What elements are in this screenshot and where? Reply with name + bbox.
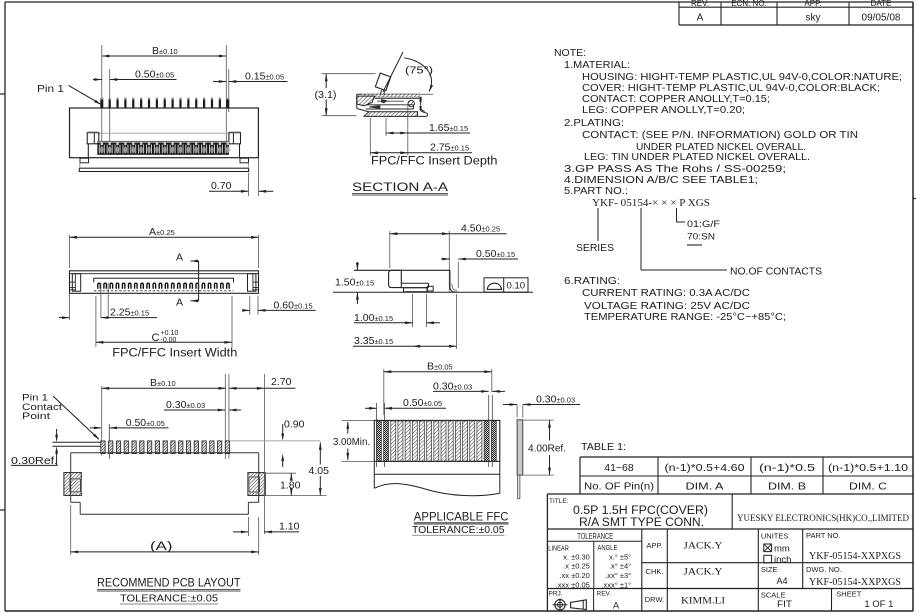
svg-text:0.10: 0.10	[507, 281, 526, 292]
top view: dim 0.60±0.15	[249, 296, 251, 315]
svg-text:(n-1)*0.5+4.60: (n-1)*0.5+4.60	[665, 462, 745, 474]
front view: body outline	[70, 108, 259, 158]
svg-text:(n-1)*0.5+1.10: (n-1)*0.5+1.10	[828, 462, 908, 474]
svg-text:PRJ.: PRJ.	[549, 591, 563, 598]
svg-text:1.00±0.15: 1.00±0.15	[354, 312, 393, 324]
svg-text:0.50±0.05: 0.50±0.05	[135, 69, 174, 81]
front view: contact comb dark band	[97, 141, 229, 155]
section A-A: angle arc (75°)	[404, 58, 431, 92]
title block: projection symbol	[555, 600, 565, 610]
section A-A: lower contact lip	[366, 104, 414, 106]
section A-A: hinge pin circle	[408, 100, 414, 106]
front view: left latch boss	[87, 133, 99, 144]
svg-text:REV.: REV.	[691, 0, 709, 8]
svg-text:5.PART NO.:: 5.PART NO.:	[564, 186, 628, 197]
svg-text:0.50±0.05: 0.50±0.05	[126, 417, 165, 429]
side view: dim 0.50±0.15	[441, 258, 450, 260]
svg-text:3.35±0.15: 3.35±0.15	[354, 335, 393, 347]
svg-text:4.05: 4.05	[309, 465, 330, 477]
pcb layout: dim 1.80	[264, 472, 296, 474]
top view: right ear	[248, 274, 256, 292]
svg-text:APP.: APP.	[804, 0, 821, 8]
svg-text:inch: inch	[774, 555, 791, 566]
svg-text:4.00Ref.: 4.00Ref.	[528, 444, 566, 455]
front view: left wall	[87, 144, 89, 158]
svg-text:.x ±0.25: .x ±0.25	[563, 562, 590, 571]
pcb layout: dim 0.30±0.03	[164, 409, 225, 411]
ffc view: cable body with conductors	[374, 420, 500, 461]
svg-text:SECTION A-A: SECTION A-A	[352, 182, 448, 194]
svg-text:0.50±0.05: 0.50±0.05	[403, 397, 442, 409]
svg-text:JACK.Y: JACK.Y	[684, 568, 723, 578]
title block: APP/CHK/DRW cells	[641, 529, 643, 611]
side view: right wall and foot	[449, 270, 451, 286]
svg-text:PART NO.: PART NO.	[806, 531, 841, 540]
svg-text:B±0.10: B±0.10	[150, 377, 176, 389]
svg-text:0.30±0.03: 0.30±0.03	[536, 393, 575, 405]
front view: dim 0.15±0.05	[213, 81, 226, 83]
svg-text:6.RATING:: 6.RATING:	[564, 276, 620, 287]
svg-text:x. ±0.30: x. ±0.30	[563, 553, 590, 562]
svg-text:A: A	[176, 297, 183, 309]
pcb layout: FFC tail lines	[53, 441, 101, 443]
svg-text:0.50±0.15: 0.50±0.15	[476, 248, 515, 260]
svg-text:0.5P 1.5H FPC(COVER): 0.5P 1.5H FPC(COVER)	[573, 505, 708, 517]
pcb layout: pads row (17 hatched pads)	[101, 441, 105, 454]
svg-text:APP.: APP.	[646, 541, 662, 550]
top view: dim C +0.10/-0.00	[95, 296, 97, 347]
side view: solder legs	[404, 288, 428, 292]
top view: section cut line A-A	[198, 261, 200, 301]
pcb layout: right side pad	[248, 473, 265, 496]
svg-text:0.30±0.03: 0.30±0.03	[166, 399, 205, 411]
top view: dim 2.25±0.15	[59, 317, 70, 319]
ffc view: side bar (cable edge view)	[517, 420, 523, 475]
front view: right latch boss	[229, 133, 241, 144]
svg-text:VOLTAGE RATING: 25V AC/DC: VOLTAGE RATING: 25V AC/DC	[584, 301, 750, 312]
section A-A: hatched housing left block	[357, 96, 375, 106]
section A-A: contact slot lines	[375, 97, 420, 99]
svg-text:YKF-05154-XXPXGS: YKF-05154-XXPXGS	[809, 577, 901, 588]
title block outer lines	[546, 494, 548, 611]
pcb layout: dim (A)	[70, 505, 72, 555]
svg-text:3.00Min.: 3.00Min.	[333, 437, 370, 448]
section A-A: smt foot	[418, 110, 428, 117]
svg-text:HOUSING: HIGHT-TEMP PLASTIC,UL: HOUSING: HIGHT-TEMP PLASTIC,UL 94V-0,COL…	[582, 72, 902, 83]
svg-text:70:SN: 70:SN	[687, 232, 715, 243]
svg-text:TEMPERATURE RANGE: -25°C~+85°C: TEMPERATURE RANGE: -25°C~+85°C;	[584, 312, 786, 323]
svg-text:A4: A4	[777, 576, 788, 586]
svg-text:1.MATERIAL:: 1.MATERIAL:	[564, 60, 630, 71]
svg-text:UNITES: UNITES	[761, 531, 789, 540]
svg-text:1 OF 1: 1 OF 1	[864, 599, 893, 609]
top view: left ear	[72, 274, 80, 292]
svg-text:2.PLATING:: 2.PLATING:	[564, 118, 624, 129]
svg-text:A: A	[697, 13, 704, 24]
svg-text:1.10: 1.10	[279, 521, 300, 533]
pcb layout: dim 1.10	[247, 517, 249, 536]
front view: right bottom step	[240, 158, 249, 163]
front view: left bottom step	[80, 158, 89, 163]
svg-text:TITLE:: TITLE:	[549, 498, 569, 505]
svg-text:DIM. C: DIM. C	[849, 481, 887, 493]
svg-text:CHK.: CHK.	[646, 567, 664, 576]
svg-text:0.70: 0.70	[211, 180, 232, 192]
side view: body step lines	[401, 282, 428, 284]
svg-text:TABLE 1:: TABLE 1:	[581, 441, 626, 453]
sheet border frame	[5, 1, 913, 3]
side view: flatness feature control frame	[484, 278, 528, 292]
svg-text:1.50±0.15: 1.50±0.15	[335, 277, 374, 289]
svg-text:(75°): (75°)	[405, 66, 433, 77]
ffc view: dim 4.00Ref.	[524, 419, 554, 421]
svg-text:CURRENT RATING: 0.3A AC/DC: CURRENT RATING: 0.3A AC/DC	[582, 288, 750, 299]
ffc view: extension lines	[376, 403, 378, 467]
svg-text:(n-1)*0.5: (n-1)*0.5	[759, 462, 815, 474]
svg-text:2.75±0.15: 2.75±0.15	[430, 142, 469, 154]
pcb layout: dim 2.70	[229, 387, 265, 389]
pcb layout: dim 0.50±0.05	[90, 427, 102, 429]
front view: dim 0.50±0.05	[93, 79, 102, 81]
svg-text:TOLERANCE: TOLERANCE	[577, 532, 613, 541]
svg-text:ECN. NO.: ECN. NO.	[731, 0, 767, 8]
svg-text:sky: sky	[806, 13, 821, 24]
svg-text:C: C	[152, 332, 160, 344]
svg-text:1.80: 1.80	[280, 479, 301, 491]
svg-text:09/05/08: 09/05/08	[862, 13, 901, 24]
section A-A: hatched bottom strip	[364, 112, 418, 117]
svg-text:0.60±0.15: 0.60±0.15	[274, 300, 313, 312]
top view: hidden dashed line	[94, 290, 234, 292]
svg-text:FIT: FIT	[777, 599, 793, 609]
svg-text:LEG: TIN UNDER PLATED NICKEL O: LEG: TIN UNDER PLATED NICKEL OVERALL.	[584, 152, 810, 163]
top view: body outline	[70, 271, 259, 294]
front view: dim B±0.10	[102, 55, 227, 57]
side view: dim 3.35±0.15	[455, 294, 457, 349]
front view: pin row (17 pins)	[100, 98, 103, 100]
svg-text:TOLERANCE:±0.05: TOLERANCE:±0.05	[120, 593, 218, 605]
svg-text:CONTACT: COPPER ANOLLY,T=0.15;: CONTACT: COPPER ANOLLY,T=0.15;	[582, 94, 770, 105]
part number leader: no. of contacts	[640, 208, 642, 270]
top view: contact ticks	[98, 283, 229, 289]
svg-text:01:G/F: 01:G/F	[687, 219, 720, 230]
svg-text:2.25±0.15: 2.25±0.15	[110, 307, 149, 319]
side view: body top line	[354, 269, 450, 271]
svg-text:COVER: HIGHT-TEMP PLASTIC,UL 9: COVER: HIGHT-TEMP PLASTIC,UL 94V-0,COLOR…	[582, 83, 880, 94]
section A-A: angle reference line	[421, 93, 433, 95]
svg-text:R/A SMT TYPE CONN.: R/A SMT TYPE CONN.	[579, 517, 704, 529]
svg-text:3.GP PASS AS The Rohs / SS-002: 3.GP PASS AS The Rohs / SS-00259;	[564, 164, 786, 175]
top view: extension lines for 2.25	[100, 283, 102, 318]
svg-text:REV.: REV.	[597, 591, 612, 598]
section A-A: dim (3.1) vertical	[322, 73, 376, 75]
side view: cover block	[389, 270, 402, 287]
front view: right wall	[239, 144, 241, 158]
svg-text:FPC/FFC Insert Depth: FPC/FFC Insert Depth	[371, 156, 498, 168]
svg-text:SIZE: SIZE	[761, 565, 778, 574]
frame centering tick right	[913, 198, 916, 200]
svg-text:ANGLE: ANGLE	[597, 545, 617, 552]
svg-text:0.15±0.05: 0.15±0.05	[245, 71, 284, 83]
title block: PART NO cell	[802, 529, 804, 589]
svg-text:B±0.05: B±0.05	[427, 361, 453, 373]
front view: extension lines pin1	[101, 45, 103, 153]
svg-text:RECOMMEND PCB LAYOUT: RECOMMEND PCB LAYOUT	[97, 578, 241, 590]
svg-text:B±0.10: B±0.10	[152, 45, 178, 57]
svg-text:NO.OF CONTACTS: NO.OF CONTACTS	[730, 267, 822, 278]
side view: dim 1.00±0.15	[412, 294, 414, 327]
pcb layout: extension lines last pad	[224, 374, 226, 459]
svg-text:-0.00: -0.00	[161, 337, 177, 344]
revision table grid	[678, 2, 680, 25]
section A-A: actuator lever block	[375, 73, 390, 91]
part number leader: plating code	[676, 208, 678, 222]
svg-text:FPC/FFC Insert Width: FPC/FFC Insert Width	[112, 348, 237, 360]
svg-text:(3.1): (3.1)	[315, 89, 337, 101]
svg-text:TOLERANCE:±0.05: TOLERANCE:±0.05	[412, 524, 505, 536]
section A-A: right wall	[420, 97, 422, 110]
pcb layout: body outline	[71, 452, 259, 454]
top view: dim A±0.25	[69, 235, 71, 268]
svg-text:DIM. A: DIM. A	[686, 481, 724, 493]
svg-text:4.50±0.25: 4.50±0.25	[461, 223, 500, 235]
svg-text:2.70: 2.70	[271, 376, 292, 388]
svg-text:A: A	[613, 601, 619, 611]
svg-text:DATE: DATE	[871, 0, 892, 8]
frame centering tick left upper	[0, 93, 5, 95]
svg-text:LINEAR: LINEAR	[548, 545, 569, 552]
pcb layout: body edges over side pads	[70, 473, 72, 496]
svg-text:DIM. B: DIM. B	[768, 481, 806, 493]
section A-A: hatched cover top strip	[361, 94, 420, 96]
frame centering tick left lower	[0, 509, 5, 511]
svg-text:CONTACT: (SEE P/N. INFORMATION: CONTACT: (SEE P/N. INFORMATION) GOLD OR …	[582, 130, 858, 141]
front view: dim 0.70	[248, 173, 250, 196]
ffc view: dim 3.00Min.	[342, 419, 375, 421]
svg-text:x.° ±5°: x.° ±5°	[609, 553, 631, 562]
part number leader: series	[597, 208, 599, 241]
table 1 grid	[580, 456, 913, 458]
svg-text:1.65±0.15: 1.65±0.15	[429, 122, 468, 134]
front view: bottom mounting strip	[79, 168, 248, 171]
front view: inner housing shade line	[99, 132, 229, 134]
section A-A: actuator lever line	[383, 52, 403, 92]
ffc view: dim B±0.05	[383, 369, 385, 415]
svg-text:YKF-05154-XXPXGS: YKF-05154-XXPXGS	[809, 551, 901, 562]
svg-text:YKF- 05154-× × × P XGS: YKF- 05154-× × × P XGS	[592, 197, 710, 209]
pcb layout: dim 4.05	[319, 442, 321, 464]
svg-text:(A): (A)	[150, 541, 173, 553]
svg-text:JACK.Y: JACK.Y	[684, 542, 723, 552]
svg-text:A: A	[176, 251, 183, 263]
svg-text:Point: Point	[22, 411, 50, 422]
svg-text:DWG. NO.: DWG. NO.	[806, 565, 842, 574]
svg-text:APPLICABLE FFC: APPLICABLE FFC	[414, 511, 509, 523]
side view: pcb base line	[333, 291, 533, 293]
svg-text:DRW.: DRW.	[645, 595, 664, 604]
svg-text:YUESKY ELECTRONICS(HK)CO.,LIMI: YUESKY ELECTRONICS(HK)CO.,LIMITED	[737, 513, 909, 524]
svg-text:mm: mm	[774, 543, 790, 554]
pcb layout: pin1 leader	[53, 396, 99, 439]
svg-text:A±0.25: A±0.25	[149, 226, 175, 238]
svg-text:KIMM.LI: KIMM.LI	[681, 597, 725, 607]
ffc view: dim 0.30±0.03 right	[516, 405, 518, 418]
svg-text:SERIES: SERIES	[576, 243, 614, 254]
svg-text:No. OF Pin(n): No. OF Pin(n)	[584, 481, 654, 493]
front view: extension lines last pin	[225, 45, 227, 153]
pcb layout: left side pad	[64, 473, 81, 496]
svg-text:SHEET: SHEET	[836, 590, 861, 599]
side view: dim 4.50±0.25	[389, 231, 391, 268]
side view: dim 1.50±0.15	[356, 262, 358, 270]
svg-text:0.30±0.03: 0.30±0.03	[433, 380, 472, 392]
top view: slot opening	[94, 278, 234, 282]
section A-A: dim 2.75±0.15	[369, 118, 371, 156]
svg-text:NOTE:: NOTE:	[554, 48, 586, 59]
ffc view: cable lower band and break wave	[373, 461, 375, 488]
pcb layout: dim B±0.10	[101, 386, 103, 438]
ffc view: dim 0.50±0.05	[365, 407, 377, 409]
section A-A: top edge lines	[357, 93, 421, 95]
front view: Pin 1 leader	[69, 85, 101, 104]
svg-text:.x° ±4°: .x° ±4°	[609, 562, 631, 571]
ffc view: dim 0.30±0.03 top	[433, 390, 489, 392]
svg-text:.xx° ±3°: .xx° ±3°	[605, 571, 631, 580]
svg-text:.xx ±0.20: .xx ±0.20	[559, 571, 589, 580]
svg-text:41~68: 41~68	[604, 462, 634, 474]
svg-text:LEG: COPPER ANOLLY,T=0.20;: LEG: COPPER ANOLLY,T=0.20;	[582, 105, 745, 116]
svg-text:0.90: 0.90	[284, 419, 305, 431]
pcb layout: dim 0.90	[230, 440, 321, 442]
svg-text:4.DIMENSION A/B/C SEE TABLE1;: 4.DIMENSION A/B/C SEE TABLE1;	[564, 175, 758, 186]
svg-text:Pin 1: Pin 1	[37, 84, 65, 95]
